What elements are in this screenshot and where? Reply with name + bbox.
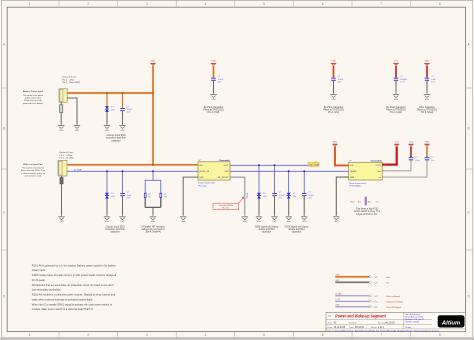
svg-text:Vreg: Vreg <box>395 141 399 143</box>
svg-text:wake when external interrupt i: wake when external interrupt is activate… <box>32 297 94 301</box>
wire U2 gnd <box>336 177 348 216</box>
wire P8 to C9 <box>410 147 412 157</box>
svg-text:Vreg: Vreg <box>394 61 398 63</box>
wire D2 to ground <box>106 199 108 216</box>
ground under J1 <box>58 126 64 132</box>
capacitor C3 <box>331 78 336 80</box>
svg-text:is shorted module wakes up: is shorted module wakes up <box>21 172 45 175</box>
wire stub diode D2 <box>106 171 108 192</box>
svg-text:PWR: PWR <box>374 301 379 303</box>
svg-text:Vreg 3.3VB Signal: Vreg 3.3VB Signal <box>386 307 401 309</box>
svg-text:PWR: PWR <box>374 277 379 279</box>
svg-text:Time: Time <box>349 327 355 329</box>
wire P5 to C5 <box>426 66 428 78</box>
C5 value label <box>431 76 436 83</box>
svg-text:GND: GND <box>199 177 204 179</box>
notes block <box>32 263 117 311</box>
ground C8 <box>301 217 307 223</box>
svg-text:R_ON: R_ON <box>335 299 340 301</box>
svg-text:Istanbul, 34000: Istanbul, 34000 <box>405 321 420 324</box>
capacitor C2 <box>211 78 216 80</box>
svg-text:use secondary protection.: use secondary protection. <box>32 288 61 292</box>
caption parallel resistors <box>141 225 165 233</box>
regulator U2 <box>349 162 383 180</box>
svg-text:pwr: pwr <box>378 170 381 173</box>
node C7 <box>274 164 276 166</box>
wire P2 to C2 <box>213 66 215 78</box>
svg-text:Socket 6.5 mm: Socket 6.5 mm <box>62 76 76 79</box>
R2 value label <box>164 194 168 199</box>
logo white backdrop <box>432 313 465 329</box>
ground D1 <box>104 126 110 132</box>
wire resistor top rail <box>145 180 161 193</box>
svg-text:and started to work.: and started to work. <box>24 174 41 177</box>
power port P5 <box>424 60 430 66</box>
node D4 <box>288 170 290 172</box>
svg-text:VBAT: VBAT <box>150 60 156 63</box>
svg-text:Battery Power Input: Battery Power Input <box>23 90 44 93</box>
svg-text:6: 6 <box>322 2 324 6</box>
svg-text:#1.00.02: #1.00.02 <box>386 323 396 325</box>
net label DRV1 vertical <box>247 192 249 199</box>
caption net tie <box>354 207 381 215</box>
svg-text:VBAT: VBAT <box>424 140 430 143</box>
title block <box>326 312 466 331</box>
note wake on input <box>21 163 45 178</box>
wire stub cap C6 <box>122 171 124 193</box>
svg-text:VBAT: VBAT <box>331 60 337 63</box>
svg-text:Number: Number <box>349 322 357 325</box>
wire P9 to C10 <box>426 147 428 157</box>
svg-text:5: 5 <box>263 2 265 6</box>
svg-text:would switch is Vreg. The: would switch is Vreg. The <box>354 210 381 213</box>
Altium logo <box>438 315 465 327</box>
left white edge <box>0 0 1 338</box>
ground U1 drv <box>242 217 248 223</box>
svg-text:AS_ON/ONT: AS_ON/ONT <box>218 176 230 179</box>
wire J2 to ground <box>61 176 63 216</box>
svg-text:TPS7333QD: TPS7333QD <box>349 186 361 188</box>
svg-text:2: 2 <box>87 2 89 6</box>
svg-text:capacitor: capacitor <box>262 231 272 234</box>
C10 value label <box>431 157 434 162</box>
caption bypass cap C4 <box>386 106 407 114</box>
ground C7 <box>271 217 277 223</box>
bottom gray band <box>0 338 474 340</box>
wire C1 to ground <box>122 111 124 125</box>
svg-text:Clamps input ESD: Clamps input ESD <box>105 225 124 228</box>
svg-text:Pin 6 (Vbat): Pin 6 (Vbat) <box>421 111 434 114</box>
svg-text:e?: e? <box>315 161 317 163</box>
C6 value label <box>127 192 132 199</box>
svg-text:This socket is for external: This socket is for external <box>22 167 45 170</box>
C9 value label <box>415 157 419 162</box>
svg-text:PB/CH_ON: PB/CH_ON <box>199 171 209 173</box>
svg-text:Vbat: Vbat <box>386 276 390 279</box>
svg-text:4: 4 <box>205 333 207 337</box>
J1 label <box>62 76 80 85</box>
caption clamps input esd mid <box>105 225 125 233</box>
diode D3 <box>257 193 261 199</box>
svg-text:Pin 2 : W_GND: Pin 2 : W_GND <box>60 158 75 160</box>
svg-text:Channable: Channable <box>219 160 231 162</box>
svg-text:R101-A4 is powered by a Li-Ion: R101-A4 is powered by a Li-Ion battery. … <box>32 263 117 267</box>
U2 designator <box>349 161 353 163</box>
wire bus1 horizontal <box>67 92 153 94</box>
grid numbers bottom <box>29 333 441 337</box>
svg-text:1: 1 <box>29 333 31 337</box>
wire D3 to ground <box>258 199 260 216</box>
svg-text:Turkey: Turkey <box>405 326 412 329</box>
svg-text:7: 7 <box>380 333 382 337</box>
grid numbers top <box>29 2 441 6</box>
svg-text:3: 3 <box>146 2 148 6</box>
J1 pin2 wire <box>67 98 77 125</box>
svg-text:This layer is that PGD: This layer is that PGD <box>356 207 379 210</box>
wire U1 out2 blue <box>230 170 349 172</box>
svg-text:Vreg: Vreg <box>409 141 413 143</box>
svg-text:Texas Instruments: Texas Instruments <box>349 182 366 185</box>
diode D1 <box>105 106 109 112</box>
wire vertical VBAT feed <box>152 66 154 165</box>
wire C4 to ground <box>395 80 397 93</box>
net label yellow box <box>308 161 320 167</box>
svg-text:protected Li-Ion battery.: protected Li-Ion battery. <box>23 102 44 105</box>
wire P6 to U2 vin <box>335 147 349 166</box>
wire stub diode D1 <box>106 93 108 106</box>
svg-text:VBAT: VBAT <box>332 140 338 143</box>
net tie purple <box>350 197 379 206</box>
ground under J2 <box>58 217 64 223</box>
diode D4 <box>287 193 291 199</box>
capacitor C5 <box>425 78 430 80</box>
R1 value label <box>148 194 152 199</box>
U1 part name <box>219 160 231 162</box>
svg-text:Monitor: Monitor <box>222 207 229 210</box>
fuse below J1 <box>60 105 63 113</box>
D1 value label <box>111 107 115 112</box>
C7 value label <box>279 192 285 199</box>
power port P9 <box>424 140 430 146</box>
company info <box>405 313 425 324</box>
wire P4 to C4 <box>395 66 397 78</box>
connector J1 <box>59 89 67 102</box>
node D2 <box>106 170 108 172</box>
svg-text:VOUT: VOUT <box>376 165 382 167</box>
svg-text:capacitor: capacitor <box>111 139 121 142</box>
wire U1 drv <box>230 177 245 216</box>
wire stub cap C1 <box>122 93 124 108</box>
svg-text:File:: File: <box>328 331 333 333</box>
grid column ticks bottom <box>59 332 411 338</box>
C8 value label <box>308 192 314 199</box>
svg-text:for 2A peak.: for 2A peak. <box>32 278 46 282</box>
svg-text:VBAT: VBAT <box>211 60 217 63</box>
svg-text:gather power input.: gather power input. <box>25 97 42 100</box>
svg-text:Channable: Channable <box>371 161 383 163</box>
svg-text:Vcc: Vcc <box>376 201 379 203</box>
J2 label <box>60 151 75 160</box>
svg-text:7: 7 <box>380 2 382 6</box>
wire C8 to ground <box>303 196 305 216</box>
capacitor C9 <box>409 158 414 160</box>
power port P8 <box>408 141 413 146</box>
caption dgm signal clamp <box>255 226 279 233</box>
wire C9 to U2 pin <box>382 160 411 171</box>
svg-text:Socket 6.5 mm: Socket 6.5 mm <box>60 151 74 154</box>
svg-text:PWR: PWR <box>374 282 379 284</box>
size number revision row <box>328 322 396 325</box>
svg-text:19.12.2019: 19.12.2019 <box>334 327 346 329</box>
svg-text:Pin 1 : +Wake: Pin 1 : +Wake <box>60 155 74 157</box>
wire resistor bottom rail <box>145 198 161 208</box>
C4 value label <box>400 76 408 83</box>
grid column ticks top <box>59 0 411 7</box>
svg-text:PWR: PWR <box>374 296 379 298</box>
power port P7 <box>394 141 399 146</box>
svg-text:R101-A4 module is a ultra low: R101-A4 module is a ultra low power modu… <box>32 293 116 297</box>
capacitor C4 <box>394 78 399 80</box>
power port VBAT P1 <box>150 60 156 66</box>
grid letters right <box>467 43 470 299</box>
node resistor pair <box>152 170 154 172</box>
legend wire GND <box>335 280 389 284</box>
ground C1 <box>119 126 125 132</box>
svg-text:28mA (Vbat=4): 28mA (Vbat=4) <box>145 231 161 234</box>
svg-text:diodes and filter: diodes and filter <box>258 228 275 231</box>
svg-text:3: 3 <box>146 333 148 337</box>
resistor R2 <box>160 193 162 197</box>
svg-text:diodes and filter: diodes and filter <box>288 228 305 231</box>
capacitor C6 <box>120 194 125 196</box>
U1 sub label <box>198 182 216 188</box>
ground C6 <box>119 217 125 223</box>
wire U2 vout red <box>382 147 397 165</box>
svg-text:100n: 100n <box>415 160 419 162</box>
caption clamps input esd top <box>106 134 126 142</box>
capacitor C1 <box>120 109 125 111</box>
svg-text:PWR: PWR <box>374 307 379 309</box>
U2 pin names <box>350 165 382 179</box>
power port P6 <box>332 140 338 146</box>
ground D3 <box>256 217 262 223</box>
power port P3 <box>331 60 337 66</box>
ground C3 <box>330 95 336 101</box>
svg-text:Date: Date <box>328 326 333 329</box>
D2 value label <box>111 193 115 198</box>
node junction bus1/feed <box>152 92 154 94</box>
svg-text:Pin 2 : -Vbat (GND): Pin 2 : -Vbat (GND) <box>62 81 80 84</box>
svg-text:Regulator ON Signal: Regulator ON Signal <box>386 300 403 303</box>
C2 value label <box>218 76 224 83</box>
power port P2 <box>211 60 217 66</box>
svg-text:SW_VBAT: SW_VBAT <box>309 164 320 167</box>
svg-text:PB_Logic: PB_Logic <box>198 185 207 187</box>
wire C5 to ground <box>426 80 428 93</box>
svg-text:B_VBAT: B_VBAT <box>74 169 83 172</box>
svg-text:When the IC is awake DRV1 sign: When the IC is awake DRV1 signal is acti… <box>32 302 113 306</box>
svg-text:capacitor: capacitor <box>292 231 302 234</box>
svg-text:Altium: Altium <box>441 320 460 326</box>
svg-text:W_MAN: W_MAN <box>335 293 342 296</box>
wire C10 to U2 pin <box>382 160 427 177</box>
capacitor C7 <box>272 194 277 196</box>
svg-text:8: 8 <box>439 2 441 6</box>
title text <box>328 314 387 319</box>
caption bypass cap C2 <box>203 106 224 114</box>
wire C7 to ground <box>274 196 276 216</box>
svg-text:module. Main power switch is a: module. Main power switch is a ultra low… <box>32 307 94 311</box>
svg-text:VBAT: VBAT <box>424 60 430 63</box>
svg-text:6: 6 <box>322 333 324 337</box>
legend wire wake on manual <box>335 293 400 298</box>
top white edge <box>0 0 474 2</box>
capacitor C10 <box>425 158 430 160</box>
op IC U1 power switch <box>198 162 230 180</box>
svg-text:Power and Wake-up Segment: Power and Wake-up Segment <box>335 314 386 319</box>
legend wire regulator on <box>335 299 403 303</box>
svg-text:DRV1: DRV1 <box>247 192 249 199</box>
wire stub cap C8 <box>303 171 305 193</box>
wire P3 to C3 <box>333 66 335 78</box>
capacitor C8 <box>302 194 307 196</box>
svg-text:VOUT: VOUT <box>223 165 229 167</box>
U1 designator <box>198 160 202 162</box>
node C8 <box>303 170 305 172</box>
wire stub diode D3 <box>258 165 260 192</box>
wire D1 to ground <box>106 112 108 125</box>
ground under J1 pin2 <box>74 126 80 132</box>
svg-text:PGD: PGD <box>350 201 355 203</box>
ground D2 <box>104 217 110 223</box>
svg-text:50 V: 50 V <box>431 81 436 83</box>
node bus1 C1 <box>122 92 124 94</box>
wire C3 to ground <box>333 80 335 93</box>
net label B_VBAT <box>74 169 83 172</box>
svg-text:Pin 1 (Vin): Pin 1 (Vin) <box>328 112 339 114</box>
svg-text:protection and filter: protection and filter <box>106 137 126 140</box>
svg-text:SENSE: SENSE <box>350 171 357 173</box>
svg-text:09:43:12: 09:43:12 <box>355 327 365 329</box>
svg-text:protection and filter: protection and filter <box>105 228 125 231</box>
svg-text:4: 4 <box>205 2 207 6</box>
wire B_VBAT blue <box>67 170 198 172</box>
svg-text:C:\Users\Mihran\Ohm_Altium\Des: C:\Users\Mihran\Ohm_Altium\Desktop\R101-… <box>333 330 441 333</box>
wire bus2 orange <box>67 164 198 166</box>
right white edge <box>473 0 474 338</box>
wire D4 to ground <box>288 199 290 216</box>
note battery power input <box>23 90 44 105</box>
svg-text:One-Shot Mode: One-Shot Mode <box>219 204 234 207</box>
svg-text:device interrupt. When 2 pin: device interrupt. When 2 pin <box>21 169 45 172</box>
resistor R1 <box>144 193 146 197</box>
svg-text:output of PGD is Vcc.: output of PGD is Vcc. <box>356 213 379 216</box>
ground C4 <box>393 95 399 101</box>
ground D4 <box>286 217 292 223</box>
file row <box>328 330 441 333</box>
svg-text:Clamps input ESD: Clamps input ESD <box>106 134 125 137</box>
svg-text:This socket is for power: This socket is for power <box>23 94 44 97</box>
wire U1 gnd <box>183 177 198 216</box>
wire stub diode D4 <box>288 171 290 192</box>
svg-text:Pin 1 : +Vbat: Pin 1 : +Vbat <box>62 78 74 81</box>
svg-text:Vss: Vss <box>386 282 389 284</box>
wire J1 pin1 ground <box>60 102 62 124</box>
svg-text:1: 1 <box>29 2 31 6</box>
connector J2 <box>58 160 67 176</box>
caption filter cap C5 <box>417 106 438 114</box>
wire C6 to ground <box>122 196 124 216</box>
ground C5 <box>424 95 430 101</box>
svg-text:2 Parallel 4k7 resistors: 2 Parallel 4k7 resistors <box>141 225 165 228</box>
svg-text:power input.: power input. <box>32 268 46 272</box>
svg-text:Sheet: Sheet <box>371 326 377 329</box>
node C6 <box>122 170 124 172</box>
wire stub cap C7 <box>274 165 276 193</box>
grid row ticks right <box>466 88 473 250</box>
svg-text:capacitor: capacitor <box>110 231 120 234</box>
callout one-shot monitor <box>213 197 244 210</box>
pin dot U2 vout <box>384 164 386 166</box>
ground U1 <box>180 217 186 223</box>
wire stub resistor pair <box>152 171 154 180</box>
svg-text:10u: 10u <box>431 160 434 162</box>
U2 part name <box>371 161 383 163</box>
ground U2 <box>333 217 339 223</box>
svg-text:Pin 2 (Vdd): Pin 2 (Vdd) <box>208 112 220 114</box>
grid letters left <box>3 43 6 299</box>
caption bypass cap C3 <box>323 106 344 114</box>
svg-text:GND: GND <box>224 171 229 173</box>
svg-text:Wake on Manual: Wake on Manual <box>386 296 400 298</box>
grid row ticks left <box>1 88 7 250</box>
ground resistor pair <box>150 217 156 223</box>
caption dio signal clamp <box>285 226 310 233</box>
svg-text:GND: GND <box>350 177 355 179</box>
wire U1 vout blue <box>230 164 308 166</box>
svg-text:50 V: 50 V <box>400 81 405 83</box>
fuse below J2 <box>60 178 63 184</box>
D4 value label <box>293 193 297 198</box>
U2 sub label <box>349 182 366 188</box>
svg-text:B: B <box>3 127 5 131</box>
svg-text:8: 8 <box>439 333 441 337</box>
U1 pin names <box>199 165 229 179</box>
svg-text:Power source is with: Power source is with <box>24 99 42 102</box>
svg-text:All batteries that we used hav: All batteries that we used have an prote… <box>32 283 114 287</box>
C3 value label <box>338 76 344 83</box>
legend wire Vbat <box>335 274 390 279</box>
power port P4 <box>393 61 398 66</box>
svg-text:5: 5 <box>263 333 265 337</box>
legend wire vreg signal <box>335 305 401 309</box>
svg-text:B: B <box>468 127 470 131</box>
svg-text:GSM module have 2A peak curren: GSM module have 2A peak current, so this… <box>32 273 117 277</box>
node bus1 D1 <box>106 92 108 94</box>
wire C2 to ground <box>213 80 215 93</box>
date time sheet row <box>328 326 413 329</box>
D3 value label <box>263 193 267 198</box>
svg-text:1 of 4: 1 of 4 <box>378 327 384 329</box>
node feed bus2 <box>152 164 154 166</box>
node D3 <box>258 164 260 166</box>
svg-text:Pin 4 (Vdd): Pin 4 (Vdd) <box>390 112 402 114</box>
ground C2 <box>210 95 216 101</box>
svg-text:2: 2 <box>87 333 89 337</box>
svg-text:defines the set level to: defines the set level to <box>141 228 165 231</box>
diode D2 <box>105 193 109 199</box>
svg-text:Wake on Input Port: Wake on Input Port <box>23 163 43 166</box>
